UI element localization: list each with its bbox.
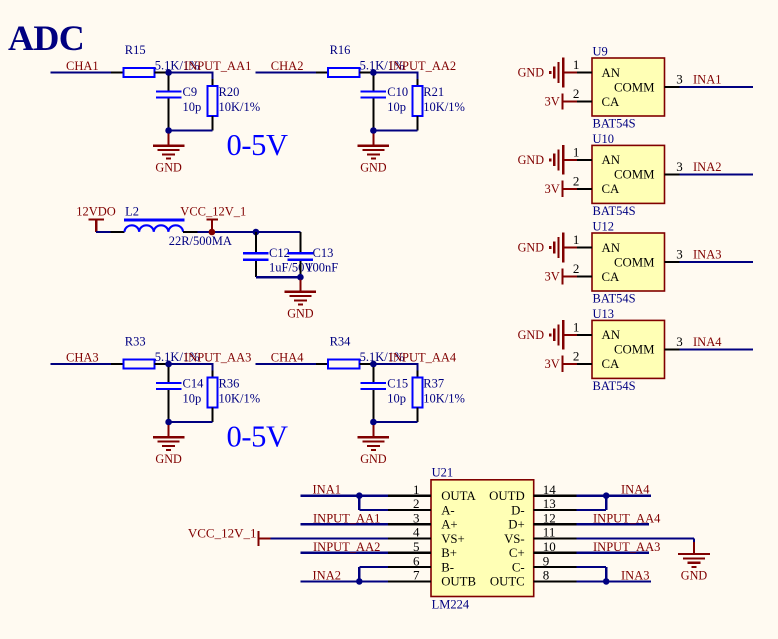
svg-text:COMM: COMM (614, 255, 655, 269)
net label CHA2 (271, 59, 304, 73)
power port GND (518, 58, 578, 88)
node junction (165, 127, 172, 134)
annotation 0-5V (227, 128, 288, 162)
svg-text:R37: R37 (423, 376, 444, 390)
node junction (603, 492, 610, 499)
pin name COMM (614, 255, 655, 269)
pin 8 (534, 568, 577, 583)
wire (680, 348, 754, 350)
svg-text:CHA2: CHA2 (271, 59, 304, 73)
annotation 0-5V (227, 420, 288, 454)
wire (577, 552, 649, 554)
svg-text:4: 4 (413, 525, 420, 540)
svg-text:INPUT_AA4: INPUT_AA4 (389, 351, 457, 365)
svg-text:GND: GND (518, 328, 545, 342)
svg-text:GND: GND (360, 160, 387, 174)
pin 1 (573, 232, 592, 248)
pin 13 (534, 496, 577, 511)
net label CHA1 (66, 59, 99, 73)
svg-text:10p: 10p (387, 100, 406, 114)
svg-text:INPUT_AA2: INPUT_AA2 (389, 59, 456, 73)
ground (153, 134, 185, 175)
svg-text:INA4: INA4 (621, 483, 650, 497)
svg-text:R15: R15 (125, 43, 146, 57)
wire (373, 363, 418, 365)
svg-text:3V: 3V (545, 182, 560, 196)
net label INPUT_AA3 (593, 540, 660, 554)
resistor R36 (169, 364, 261, 422)
node junction (253, 229, 260, 236)
svg-text:12: 12 (543, 511, 556, 526)
svg-text:10p: 10p (387, 391, 406, 405)
svg-text:10K/1%: 10K/1% (219, 391, 261, 405)
wire (605, 567, 607, 581)
svg-text:1: 1 (573, 144, 580, 159)
pin name AN (602, 241, 620, 255)
pin name CA (602, 182, 621, 196)
node junction (370, 127, 377, 134)
pin name AN (602, 153, 620, 167)
resistor R20 (169, 73, 261, 131)
svg-text:3: 3 (676, 159, 683, 174)
svg-text:INA3: INA3 (693, 248, 721, 262)
power port VCC_12V_1 (188, 526, 271, 547)
power port 3V (545, 268, 578, 284)
svg-text:2: 2 (573, 348, 580, 363)
svg-text:GND: GND (681, 569, 708, 583)
title ADC (8, 18, 84, 58)
pin name AN (602, 66, 620, 80)
wire (300, 523, 388, 525)
wire (373, 71, 418, 73)
svg-text:BAT54S: BAT54S (593, 292, 636, 306)
net label INA4 (621, 483, 650, 497)
wire (256, 363, 316, 365)
svg-text:R34: R34 (330, 334, 352, 348)
pin 5 (388, 539, 431, 554)
svg-text:22R/500MA: 22R/500MA (169, 234, 232, 248)
svg-text:5: 5 (413, 539, 420, 554)
net label INPUT_AA4 (389, 351, 457, 365)
capacitor C12 (243, 232, 313, 277)
svg-text:0-5V: 0-5V (227, 420, 288, 454)
svg-text:LM224: LM224 (432, 598, 470, 612)
node junction (603, 578, 610, 585)
svg-text:B-: B- (441, 560, 454, 574)
wire (680, 86, 754, 88)
pin 7 (388, 568, 431, 583)
pin name OUTA (441, 489, 476, 503)
node junction (356, 578, 363, 585)
wire (605, 496, 607, 510)
wire (169, 363, 214, 365)
pin 3 (665, 72, 683, 87)
net label CHA4 (271, 350, 304, 364)
svg-text:C15: C15 (387, 376, 408, 390)
pin name D- (511, 503, 525, 517)
svg-text:7: 7 (413, 568, 420, 583)
power port 12VDO (76, 205, 116, 232)
pin 2 (573, 261, 592, 277)
pin 4 (388, 525, 431, 540)
svg-text:INA1: INA1 (693, 73, 721, 87)
pin name B+ (441, 546, 457, 560)
pin 3 (665, 247, 683, 262)
svg-text:10K/1%: 10K/1% (423, 391, 465, 405)
wire (300, 552, 388, 554)
svg-text:GND: GND (518, 66, 545, 80)
net label INA3 (621, 568, 649, 582)
power port GND (518, 145, 578, 175)
svg-text:0-5V: 0-5V (227, 128, 288, 162)
wire (577, 566, 607, 568)
pin name OUTC (490, 575, 525, 589)
pin name VS+ (441, 532, 465, 546)
pin 2 (573, 348, 592, 364)
svg-text:VS-: VS- (504, 532, 525, 546)
wire (256, 231, 301, 233)
svg-text:D-: D- (511, 503, 525, 517)
net label INPUT_AA4 (593, 511, 661, 525)
svg-text:GND: GND (518, 153, 545, 167)
svg-text:COMM: COMM (614, 80, 655, 94)
pin 1 (573, 144, 592, 160)
node junction (370, 69, 377, 76)
resistor R34 (316, 334, 405, 368)
inductor L2 (111, 205, 232, 249)
svg-text:A-: A- (441, 503, 455, 517)
svg-text:ADC: ADC (8, 18, 84, 58)
svg-text:COMM: COMM (614, 168, 655, 182)
pin name COMM (614, 343, 655, 357)
net label INA1 (693, 73, 721, 87)
svg-text:2: 2 (573, 86, 580, 101)
pin name COMM (614, 80, 655, 94)
diode U13 (592, 307, 665, 393)
wire (96, 231, 110, 233)
svg-text:AN: AN (602, 153, 620, 167)
capacitor C9 (156, 76, 201, 131)
svg-text:R16: R16 (330, 43, 351, 57)
svg-text:U21: U21 (432, 465, 454, 479)
svg-text:2: 2 (413, 496, 420, 511)
capacitor C13 (288, 232, 339, 277)
svg-text:R20: R20 (219, 85, 240, 99)
pin 10 (534, 539, 577, 554)
svg-text:3: 3 (676, 247, 683, 262)
wire (256, 276, 301, 278)
svg-text:INPUT_AA3: INPUT_AA3 (184, 351, 251, 365)
pin 1 (573, 57, 592, 73)
svg-text:14: 14 (543, 482, 557, 497)
ground (285, 280, 317, 321)
svg-text:1: 1 (413, 482, 420, 497)
pin 14 (534, 482, 577, 497)
wire (358, 496, 360, 510)
pin 1 (573, 319, 592, 335)
svg-text:3V: 3V (545, 95, 560, 109)
svg-text:INA2: INA2 (693, 160, 721, 174)
resistor R15 (111, 43, 200, 77)
svg-text:CA: CA (602, 95, 621, 109)
pin name OUTD (489, 489, 525, 503)
svg-text:INPUT_AA1: INPUT_AA1 (184, 59, 251, 73)
ground (153, 425, 185, 466)
svg-text:CHA3: CHA3 (66, 350, 99, 364)
svg-text:13: 13 (543, 496, 556, 511)
node junction (165, 361, 172, 368)
svg-text:U9: U9 (593, 45, 608, 59)
svg-text:CHA4: CHA4 (271, 350, 304, 364)
wire (256, 71, 316, 73)
svg-text:U13: U13 (593, 307, 615, 321)
svg-text:10: 10 (543, 539, 556, 554)
svg-text:1: 1 (573, 319, 580, 334)
node junction (356, 492, 363, 499)
svg-text:C+: C+ (509, 546, 525, 560)
svg-text:C9: C9 (183, 85, 198, 99)
node junction (297, 274, 304, 281)
pin name A- (441, 503, 455, 517)
pin 3 (665, 159, 683, 174)
svg-text:INA4: INA4 (693, 335, 722, 349)
op-amp U21 (431, 465, 534, 611)
wire (577, 523, 649, 525)
svg-text:BAT54S: BAT54S (593, 117, 636, 131)
power port VCC_12V_1 (180, 205, 246, 236)
net label INA2 (693, 160, 721, 174)
net label INA1 (313, 483, 341, 497)
net label INPUT_AA1 (313, 511, 380, 525)
svg-text:INA3: INA3 (621, 568, 649, 582)
pin 2 (573, 173, 592, 189)
wire (271, 537, 389, 539)
net label CHA3 (66, 350, 99, 364)
pin 6 (388, 553, 431, 568)
power port 3V (545, 356, 578, 372)
wire (198, 231, 256, 233)
svg-text:1: 1 (573, 57, 580, 72)
pin 3 (665, 334, 683, 349)
svg-text:GND: GND (287, 306, 314, 320)
svg-text:OUTC: OUTC (490, 575, 525, 589)
power port GND (518, 233, 578, 263)
ground (358, 425, 390, 466)
svg-text:AN: AN (602, 66, 620, 80)
svg-text:2: 2 (573, 173, 580, 188)
wire (300, 495, 388, 497)
pin name VS- (504, 532, 525, 546)
net label INA3 (693, 248, 721, 262)
pin name CA (602, 270, 621, 284)
pin 12 (534, 511, 577, 526)
svg-text:CHA1: CHA1 (66, 59, 99, 73)
wire (51, 363, 111, 365)
svg-text:10p: 10p (183, 100, 202, 114)
svg-text:3V: 3V (545, 357, 560, 371)
svg-text:AN: AN (602, 328, 620, 342)
svg-text:R21: R21 (423, 85, 444, 99)
svg-text:U10: U10 (593, 132, 615, 146)
pin 2 (388, 496, 431, 511)
capacitor C14 (156, 367, 204, 422)
svg-text:BAT54S: BAT54S (593, 204, 636, 218)
svg-text:CA: CA (602, 270, 621, 284)
pin name AN (602, 328, 620, 342)
resistor R16 (316, 43, 405, 77)
svg-text:C10: C10 (387, 85, 408, 99)
pin name OUTB (441, 575, 476, 589)
pin 1 (388, 482, 431, 497)
net label INPUT_AA3 (184, 351, 251, 365)
pin 2 (573, 86, 592, 102)
svg-text:OUTA: OUTA (441, 489, 476, 503)
resistor R37 (373, 364, 465, 422)
svg-text:3V: 3V (545, 270, 560, 284)
node junction (165, 419, 172, 426)
wire (359, 509, 388, 511)
pin name C- (512, 560, 525, 574)
wire (577, 537, 694, 539)
svg-text:INPUT_AA3: INPUT_AA3 (593, 540, 660, 554)
pin name D+ (508, 518, 524, 532)
svg-text:GND: GND (155, 160, 182, 174)
wire (300, 580, 388, 582)
svg-text:10K/1%: 10K/1% (219, 100, 261, 114)
svg-text:INA2: INA2 (313, 568, 341, 582)
pin name CA (602, 95, 621, 109)
svg-text:C13: C13 (313, 246, 334, 260)
svg-text:B+: B+ (441, 546, 457, 560)
svg-text:9: 9 (543, 553, 550, 568)
wire (577, 580, 651, 582)
svg-text:R36: R36 (219, 376, 240, 390)
svg-text:3: 3 (676, 72, 683, 87)
resistor R21 (373, 73, 465, 131)
svg-text:CA: CA (602, 182, 621, 196)
svg-text:10p: 10p (183, 391, 202, 405)
svg-text:GND: GND (518, 241, 545, 255)
diode U12 (592, 220, 665, 306)
capacitor C10 (361, 76, 408, 131)
svg-text:VCC_12V_1: VCC_12V_1 (188, 526, 257, 541)
svg-text:OUTB: OUTB (441, 575, 476, 589)
wire (358, 567, 360, 581)
wire (51, 71, 111, 73)
svg-text:BAT54S: BAT54S (593, 379, 636, 393)
svg-text:CA: CA (602, 357, 621, 371)
capacitor C15 (361, 367, 408, 422)
svg-text:2: 2 (573, 261, 580, 276)
svg-text:GND: GND (360, 452, 387, 466)
svg-text:OUTD: OUTD (489, 489, 525, 503)
svg-text:INA1: INA1 (313, 483, 341, 497)
ground (678, 542, 710, 583)
svg-text:3: 3 (413, 511, 420, 526)
net label INPUT_AA2 (389, 59, 456, 73)
wire (680, 173, 754, 175)
pin name B- (441, 560, 454, 574)
svg-text:10K/1%: 10K/1% (423, 100, 465, 114)
wire (577, 495, 651, 497)
svg-text:INPUT_AA2: INPUT_AA2 (313, 540, 380, 554)
resistor R33 (111, 334, 200, 368)
power port GND (518, 320, 578, 350)
diode U10 (592, 132, 665, 218)
wire (693, 539, 695, 552)
svg-text:L2: L2 (125, 205, 139, 219)
wire (169, 71, 214, 73)
pin name C+ (509, 546, 525, 560)
svg-text:COMM: COMM (614, 343, 655, 357)
svg-text:U12: U12 (593, 220, 615, 234)
svg-text:C12: C12 (269, 246, 290, 260)
net label INA2 (313, 568, 341, 582)
ground (358, 134, 390, 175)
svg-text:8: 8 (543, 568, 550, 583)
power port 3V (545, 181, 578, 197)
net label INA4 (693, 335, 722, 349)
svg-text:VCC_12V_1: VCC_12V_1 (180, 205, 246, 219)
pin 3 (388, 511, 431, 526)
wire (577, 509, 607, 511)
svg-text:6: 6 (413, 553, 420, 568)
svg-text:3: 3 (676, 334, 683, 349)
pin 11 (534, 525, 577, 540)
svg-text:12VDO: 12VDO (76, 205, 116, 219)
wire (359, 566, 388, 568)
pin name A+ (441, 518, 457, 532)
node junction (165, 69, 172, 76)
svg-text:C-: C- (512, 560, 525, 574)
svg-text:D+: D+ (508, 518, 524, 532)
node junction (370, 361, 377, 368)
svg-text:INPUT_AA1: INPUT_AA1 (313, 511, 380, 525)
diode U9 (592, 45, 665, 131)
svg-text:1: 1 (573, 232, 580, 247)
power port 3V (545, 93, 578, 109)
svg-text:A+: A+ (441, 518, 457, 532)
svg-text:11: 11 (543, 525, 556, 540)
svg-text:GND: GND (155, 452, 182, 466)
wire (680, 261, 754, 263)
pin name CA (602, 357, 621, 371)
svg-text:AN: AN (602, 241, 620, 255)
svg-text:R33: R33 (125, 334, 146, 348)
node junction (370, 419, 377, 426)
net label INPUT_AA2 (313, 540, 380, 554)
pin name COMM (614, 168, 655, 182)
svg-text:VS+: VS+ (441, 532, 465, 546)
svg-text:INPUT_AA4: INPUT_AA4 (593, 511, 661, 525)
pin 9 (534, 553, 577, 568)
net label INPUT_AA1 (184, 59, 251, 73)
svg-text:C14: C14 (183, 376, 205, 390)
svg-text:100nF: 100nF (306, 261, 338, 275)
